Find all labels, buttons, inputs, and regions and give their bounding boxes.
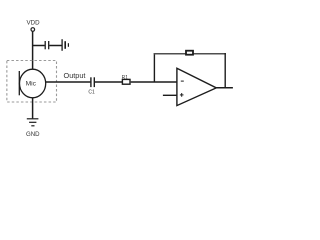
op-amp U1	[177, 68, 216, 105]
resistor R1	[122, 79, 130, 84]
wire branch to bypass capacitor	[32, 45, 44, 47]
svg-text:Mic: Mic	[26, 81, 37, 88]
capacitor (bypass, unlabeled)	[45, 41, 49, 49]
wire feedback right (down to output)	[224, 53, 226, 88]
microphone flat plate	[18, 71, 20, 95]
resistor R2 (feedback, unlabeled)	[186, 51, 193, 55]
op-amp inverting pin mark	[181, 80, 184, 82]
wire op-amp output	[216, 87, 233, 89]
wire feedback top	[154, 53, 226, 55]
dashed enclosure (mic module)	[7, 61, 57, 103]
wire non-inverting input stub	[163, 94, 177, 96]
svg-text:C1: C1	[88, 90, 95, 96]
op-amp non-inverting pin mark	[180, 93, 184, 97]
wire R1 to op-amp inverting input	[131, 81, 177, 83]
wire C1 to R1	[95, 81, 122, 83]
capacitor C1	[91, 77, 94, 87]
wire VDD down to mic	[32, 31, 34, 69]
wire mic to capacitor C1	[46, 81, 91, 83]
ground GND	[27, 119, 39, 126]
ground (rotated, right-facing)	[62, 39, 68, 51]
wire capacitor to ground	[49, 45, 61, 47]
svg-text:Output: Output	[64, 71, 86, 80]
svg-text:R1: R1	[122, 75, 129, 81]
svg-text:GND: GND	[26, 131, 40, 138]
wire feedback left (junction up)	[153, 53, 155, 82]
power terminal VDD	[31, 28, 35, 32]
wire mic to ground	[32, 98, 34, 119]
svg-text:VDD: VDD	[27, 20, 41, 27]
microphone Mic body	[19, 69, 45, 98]
